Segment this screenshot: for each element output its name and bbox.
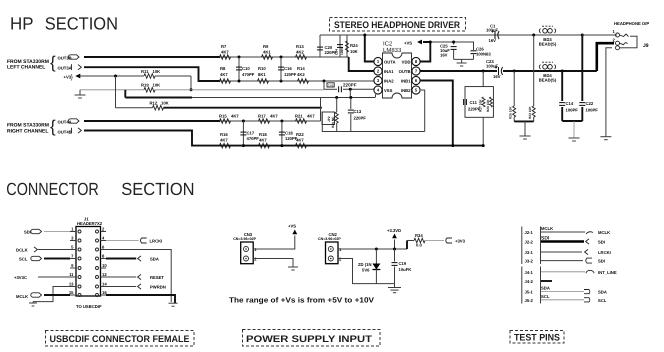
svg-text:100N63: 100N63 (476, 52, 491, 57)
svg-text:TEST PINS: TEST PINS (514, 333, 560, 344)
wire +V3 row (79, 75, 144, 77)
svg-text:C19: C19 (399, 261, 407, 266)
wire jack pin3 to ground (606, 48, 612, 137)
svg-text:OUTA: OUTA (384, 59, 396, 64)
capacitor C1 100uF 16V (494, 31, 496, 39)
resistor R25 (513, 71, 515, 106)
svg-text:J3-2: J3-2 (525, 259, 534, 264)
wire INB1 to feedback (420, 81, 453, 146)
svg-text:POWER SUPPLY INPUT: POWER SUPPLY INPUT (246, 334, 372, 345)
junction C11 row R2 (482, 144, 485, 147)
wire row1 mid (220, 56, 349, 58)
svg-text:R16: R16 (220, 132, 228, 137)
ground C14 C22 (573, 121, 575, 138)
svg-text:4: 4 (102, 236, 105, 241)
svg-text:+VS: +VS (288, 224, 296, 229)
resistor R24 (346, 35, 348, 57)
svg-text:100PF: 100PF (566, 108, 579, 113)
wire BD4 to jack pin2 (597, 43, 614, 71)
svg-text:INA1: INA1 (384, 69, 394, 74)
svg-text:1: 1 (613, 29, 616, 34)
resistor R23 (533, 35, 535, 106)
svg-text:CN=3.96=02P: CN=3.96=02P (318, 237, 341, 241)
capacitor C18 (281, 121, 283, 146)
svg-text:16V: 16V (493, 74, 501, 79)
wire CN2 pin1 (338, 248, 407, 250)
svg-text:MCLK: MCLK (16, 294, 28, 299)
svg-text:10uFK: 10uFK (399, 267, 412, 272)
resistor R15 (220, 119, 231, 124)
svg-text:MCLK: MCLK (598, 230, 610, 235)
svg-text:C13: C13 (354, 109, 362, 114)
svg-text:R15: R15 (219, 114, 227, 119)
svg-text:BEAD(S): BEAD(S) (539, 42, 557, 47)
svg-text:CONNECTOR: CONNECTOR (6, 179, 99, 199)
svg-text:R14: R14 (297, 66, 305, 71)
svg-text:R17: R17 (258, 114, 266, 119)
ground power (388, 287, 401, 289)
svg-text:C11: C11 (470, 100, 478, 105)
wire OUTB row (420, 70, 497, 72)
svg-text:INT_LINE: INT_LINE (598, 270, 617, 275)
wire top rail OUTA (320, 34, 617, 36)
svg-text:4K7: 4K7 (259, 138, 267, 143)
feedback network C11 R27 R26 box (465, 87, 493, 118)
svg-text:3: 3 (71, 236, 74, 241)
wire INB2 drop (421, 90, 425, 132)
node SDA J1 (138, 256, 141, 261)
op-amp IC2 pins (374, 57, 382, 65)
dashed label box TEST PINS (510, 331, 564, 344)
wire OUTA up to rail (365, 35, 374, 62)
junction R2 C18 (280, 144, 283, 147)
svg-text:R26 10K: R26 10K (486, 99, 490, 112)
svg-text:VDD: VDD (402, 59, 411, 64)
svg-text:10K: 10K (153, 69, 161, 74)
resistor R12 (153, 105, 164, 110)
svg-text:RESET: RESET (150, 275, 164, 280)
svg-text:1: 1 (71, 227, 74, 232)
svg-text:13: 13 (69, 282, 74, 287)
capacitor C16 (280, 57, 282, 81)
ground J1 right (169, 302, 178, 304)
svg-text:SDA: SDA (541, 286, 550, 291)
wire row R1 (220, 120, 321, 122)
wire +3V3C (38, 276, 70, 278)
svg-text:16V: 16V (489, 38, 497, 43)
junction row A (532, 34, 535, 37)
svg-text:RIGHT CHANNEL: RIGHT CHANNEL (7, 129, 48, 135)
svg-text:R25 10K: R25 10K (509, 106, 513, 119)
resistor R20 (336, 98, 338, 113)
capacitor C23 100uF 16V (498, 67, 500, 75)
wire row A to jack pin1 (582, 34, 614, 36)
resistor R16 (220, 143, 231, 148)
svg-text:R12: R12 (150, 101, 158, 106)
svg-text:C14: C14 (566, 101, 574, 106)
svg-text:C18: C18 (285, 131, 293, 136)
svg-text:R9: R9 (263, 44, 269, 49)
wire OUT4B step to row R2 (84, 131, 220, 146)
junction R11 drop (190, 88, 193, 91)
capacitor C13 (350, 98, 352, 110)
wire SDA J1 (106, 258, 136, 260)
wire C14 C22 bottom (562, 120, 582, 122)
resistor R9 (262, 55, 273, 60)
test pins left rail (521, 227, 523, 265)
svg-text:SDA: SDA (598, 290, 607, 295)
ground left mid (79, 90, 81, 95)
svg-text:OUT3B: OUT3B (58, 56, 72, 61)
wire riser R34 (406, 241, 408, 250)
wire cap to VSS (343, 88, 374, 90)
capacitor C10 (238, 57, 240, 81)
resistor R14 (298, 79, 309, 84)
svg-text:HEADER7X2: HEADER7X2 (77, 221, 103, 226)
wire pin13 step (33, 287, 70, 302)
jumper box JP2 (322, 112, 335, 125)
junction +VS (429, 41, 432, 44)
resistor R19 (144, 88, 155, 93)
wire +VS to VDD (420, 42, 430, 62)
svg-text:J4-2: J4-2 (525, 279, 534, 284)
resistor R11 (144, 74, 155, 79)
svg-text:SDA: SDA (150, 257, 159, 262)
svg-text:J2-1: J2-1 (525, 230, 534, 235)
svg-text:+3V3C: +3V3C (14, 275, 27, 280)
svg-text:5V6: 5V6 (362, 268, 370, 273)
wire pin16 bottom (106, 295, 175, 303)
resistor R26 (490, 97, 493, 107)
wire CN2 pin2 bottom (338, 259, 395, 284)
svg-text:470PF: 470PF (242, 72, 255, 77)
wire CN3 pin2 to ground (253, 259, 293, 268)
svg-text:OUT4B: OUT4B (58, 129, 72, 134)
node LRCKI (140, 238, 146, 243)
svg-text:14: 14 (102, 282, 107, 287)
svg-text:4K7: 4K7 (221, 50, 229, 55)
resistor R18 (259, 143, 270, 148)
svg-text:SCL: SCL (598, 298, 607, 303)
junction row2 TP (323, 80, 326, 83)
wire C11 box bottom to R2 (482, 117, 484, 145)
junction y97.5 C13 (349, 96, 352, 99)
svg-text:8: 8 (102, 254, 105, 259)
wire +VS to C25 group (430, 41, 453, 43)
svg-text:2: 2 (102, 227, 105, 232)
svg-text:C17: C17 (247, 131, 255, 136)
svg-text:J2-2: J2-2 (525, 240, 534, 245)
svg-text:R27 10K: R27 10K (479, 99, 483, 112)
wire +V3 down to R12 row (115, 76, 117, 108)
svg-text:R10: R10 (258, 66, 266, 71)
svg-text:R22: R22 (296, 132, 304, 137)
zener diode ZD (375, 249, 377, 264)
resistor R34 (407, 240, 414, 242)
svg-text:4K1: 4K1 (263, 50, 271, 55)
junction row A 2 (581, 34, 584, 37)
svg-text:CN=3.96=02P: CN=3.96=02P (233, 237, 256, 241)
svg-text:BEAD(S): BEAD(S) (539, 78, 557, 83)
svg-text:SDI: SDI (598, 259, 605, 264)
svg-text:470PF: 470PF (247, 136, 260, 141)
capacitor C25 (453, 42, 455, 45)
svg-text:4K2: 4K2 (296, 50, 304, 55)
svg-text:4K7: 4K7 (220, 138, 228, 143)
svg-text:OUTB: OUTB (399, 69, 411, 74)
svg-text:USBCDIF CONNECTOR FEMALE: USBCDIF CONNECTOR FEMALE (50, 334, 190, 345)
ferrite bead BD4 (539, 64, 555, 69)
svg-text:220PF: 220PF (343, 83, 357, 88)
resistor R22 (296, 143, 307, 148)
junction row B (513, 70, 516, 73)
capacitor C20 (319, 35, 321, 57)
svg-text:{: { (50, 53, 56, 72)
resistor R21 (296, 119, 307, 124)
svg-text:LEFT CHANNEL: LEFT CHANNEL (7, 65, 45, 71)
junction INB1 row R2 (451, 144, 454, 147)
capacitor C11 (463, 99, 465, 105)
wire OUT3B to R7 row (84, 56, 220, 58)
node PWRDN (138, 284, 141, 289)
junction cap row (349, 88, 352, 91)
wire row1 to INA1 (349, 57, 374, 71)
junction OUTB C11 (482, 70, 485, 73)
svg-text:C10: C10 (242, 66, 250, 71)
wire CN3 pin1 to +VS (253, 236, 295, 250)
svg-text:120PF: 120PF (284, 72, 297, 77)
svg-text:STEREO HEADPHONE DRIVER: STEREO HEADPHONE DRIVER (334, 20, 460, 31)
svg-text:SECTION: SECTION (121, 179, 194, 199)
svg-text:+VS: +VS (404, 41, 412, 46)
svg-text:TP6: TP6 (328, 83, 334, 87)
svg-text:INB1: INB1 (401, 78, 411, 83)
svg-text:R7: R7 (221, 44, 227, 49)
svg-text:}: } (71, 74, 74, 81)
svg-text:11: 11 (69, 272, 74, 277)
wire thick corner x125 (124, 90, 126, 98)
wire DCLK (38, 249, 70, 251)
wire row2 (220, 80, 375, 82)
capacitor C22 (581, 35, 583, 101)
junction R2 C17 (242, 144, 245, 147)
svg-text:IC2: IC2 (383, 41, 393, 48)
svg-text:R21: R21 (295, 114, 303, 119)
wire R25 R23 bottom (514, 120, 534, 122)
dashed label box STEREO HEADPHONE DRIVER (330, 18, 466, 32)
svg-text:LRCKI: LRCKI (150, 239, 163, 244)
svg-text:HEADPHONE O/P: HEADPHONE O/P (614, 21, 649, 26)
svg-text:R24: R24 (350, 43, 358, 48)
capacitor C26 (454, 42, 474, 50)
wire SCL (44, 258, 70, 260)
op-amp IC2 LM833 body (383, 53, 412, 98)
junction +3.3VD (393, 248, 396, 251)
svg-text:HP: HP (10, 13, 34, 33)
dashed label box POWER SUPPLY INPUT (243, 330, 381, 347)
svg-text:SDI: SDI (24, 230, 31, 235)
wire LRCKI (106, 240, 139, 242)
svg-text:100PF: 100PF (586, 108, 599, 113)
junction R1 C18 (280, 120, 283, 123)
wire VSS stub (375, 94, 377, 97)
wire OUT4A row (84, 120, 220, 122)
svg-text:+3.3VD: +3.3VD (387, 228, 401, 233)
connector J1 pins (78, 230, 81, 233)
wire RESET (106, 276, 136, 278)
junction row2 C16 (280, 80, 283, 83)
svg-text:4K2: 4K2 (297, 72, 305, 77)
wire TP to cap (324, 88, 337, 90)
svg-text:220PF: 220PF (354, 116, 367, 121)
wire gray row y90 (80, 89, 144, 91)
wire C23 to bead BD4 (503, 70, 597, 72)
svg-text:CN3: CN3 (244, 232, 253, 237)
svg-text:OUT3A: OUT3A (58, 65, 72, 70)
svg-text:10K: 10K (153, 83, 161, 88)
test point box TP6 (327, 83, 334, 87)
wire C25 C26 bottom (454, 58, 474, 60)
ground CN3 (288, 266, 298, 268)
svg-text:SCL: SCL (19, 257, 28, 262)
svg-text:4K7: 4K7 (270, 114, 278, 119)
junction +V3 (114, 75, 117, 78)
svg-text:INB2: INB2 (401, 88, 411, 93)
svg-text:CN2: CN2 (329, 232, 338, 237)
capacitor C24 (339, 35, 341, 57)
junction row1 C16 (280, 56, 283, 59)
svg-text:8K1: 8K1 (258, 72, 266, 77)
svg-text:J9: J9 (643, 43, 649, 49)
svg-text:10K: 10K (161, 101, 169, 106)
svg-text:6: 6 (102, 245, 105, 250)
svg-text:SDI: SDI (598, 240, 605, 245)
svg-text:10: 10 (102, 263, 107, 268)
svg-text:4K7: 4K7 (231, 114, 239, 119)
wire R1 up to y99 (320, 98, 322, 122)
junction BD4 C14 (561, 70, 564, 73)
svg-text:INA2: INA2 (384, 78, 394, 83)
wire row R2 long (220, 145, 483, 147)
wire R12 row (116, 107, 153, 109)
svg-text:SCL: SCL (541, 294, 550, 299)
capacitor C19 (394, 249, 396, 262)
svg-text:100N: 100N (340, 47, 344, 55)
svg-text:+3V3: +3V3 (455, 239, 466, 244)
svg-text:J4-1: J4-1 (525, 270, 534, 275)
dashed label box USBCDIF CONNECTOR FEMALE (46, 331, 195, 347)
junction ZD (375, 248, 378, 251)
capacitor C12 series 220PF (338, 86, 340, 92)
svg-text:16V: 16V (440, 53, 448, 58)
wire OUTB to C11 box (482, 71, 484, 87)
svg-text:TO USBCDIF: TO USBCDIF (76, 304, 102, 309)
junction row1 C10 (238, 56, 241, 59)
svg-text:ZD (1N: ZD (1N (358, 262, 372, 267)
svg-text:PWRDN: PWRDN (150, 285, 166, 290)
resistor R10 (258, 79, 269, 84)
svg-text:MCLK: MCLK (541, 226, 553, 231)
svg-text:SECTION: SECTION (45, 13, 118, 33)
svg-text:R18: R18 (259, 132, 267, 137)
svg-text:VSS: VSS (384, 88, 393, 93)
wire R11 to vertical (190, 76, 192, 90)
resistor R27 (482, 97, 485, 107)
junction row2 C10 (238, 80, 241, 83)
svg-text:J5-1: J5-1 (525, 290, 534, 295)
capacitor C14 (561, 71, 563, 101)
wire PWRDN (106, 286, 136, 288)
wire OUT3A row2 step (84, 67, 220, 81)
ground jack (600, 136, 611, 138)
wire TP drop (323, 81, 325, 89)
svg-text:9: 9 (71, 263, 74, 268)
svg-text:The range of +Vs is from +5V t: The range of +Vs is from +5V to +10V (229, 296, 374, 305)
wire SDI (44, 231, 70, 233)
resistor R13 (296, 55, 307, 60)
svg-text:C16: C16 (284, 66, 292, 71)
junction OUTA rail (363, 34, 366, 37)
svg-text:4K7: 4K7 (220, 72, 228, 77)
svg-text:{: { (50, 117, 56, 136)
svg-text:J5-2: J5-2 (525, 298, 534, 303)
svg-text:100uF: 100uF (486, 64, 499, 69)
test pins right rail (540, 227, 542, 265)
svg-text:LRCKI: LRCKI (598, 250, 611, 255)
svg-text:C24: C24 (335, 49, 339, 55)
wire net y97.5 (125, 97, 192, 99)
wire bottom loop to INB2 (322, 112, 424, 132)
junction y97.5 R20 (335, 96, 338, 99)
svg-text:12: 12 (102, 272, 107, 277)
svg-text:5: 5 (71, 245, 74, 250)
ferrite bead BD3 (539, 28, 555, 33)
svg-text:R34: R34 (415, 233, 423, 238)
svg-text:4K7: 4K7 (307, 114, 315, 119)
svg-text:0.0: 0.0 (416, 243, 422, 248)
resistor R7 (220, 55, 231, 60)
svg-text:4K7: 4K7 (296, 138, 304, 143)
svg-text:R23 10K: R23 10K (528, 106, 532, 119)
svg-text:J3-1: J3-1 (525, 250, 534, 255)
svg-text:C22: C22 (586, 101, 594, 106)
wire down from cap row (349, 89, 351, 97)
node RESET (138, 274, 141, 279)
ground C25 C26 (461, 59, 463, 63)
junction R1 C17 (242, 120, 245, 123)
svg-text:2: 2 (613, 38, 616, 43)
svg-text:R13: R13 (296, 44, 304, 49)
resistor R17 (259, 119, 270, 124)
wire MCLK (44, 294, 70, 296)
resistor R8 (220, 79, 231, 84)
svg-text:100uF: 100uF (486, 28, 499, 33)
ground J1 left (32, 302, 34, 303)
node +3V3 (446, 238, 452, 243)
wire pin6 down (106, 250, 171, 303)
wire +3.3VD riser (394, 240, 396, 250)
svg-text:7: 7 (71, 254, 74, 259)
svg-text:R19: R19 (141, 83, 149, 88)
svg-text:LM833: LM833 (383, 47, 402, 54)
svg-text:R11: R11 (141, 69, 149, 74)
svg-text:R8: R8 (220, 66, 226, 71)
junction C25 top (452, 41, 455, 44)
ground R25 R23 (524, 121, 526, 136)
svg-text:DCLK: DCLK (16, 248, 28, 253)
svg-text:10K: 10K (350, 49, 358, 54)
capacitor C17 (242, 121, 244, 146)
